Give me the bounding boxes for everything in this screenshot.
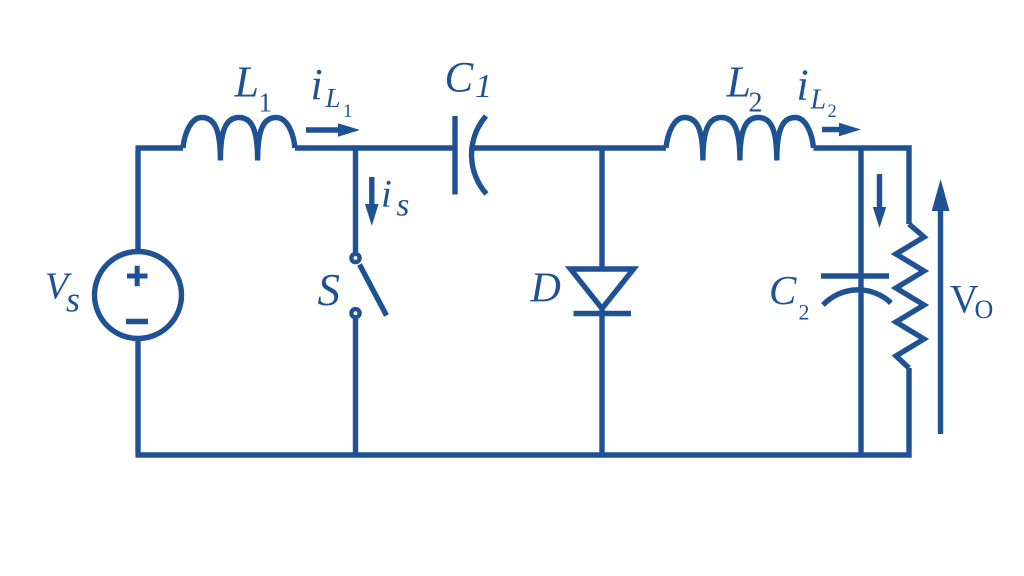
arrow i_s shaft	[369, 177, 374, 208]
svg-text:1: 1	[475, 68, 492, 105]
svg-text:S: S	[318, 265, 341, 315]
svg-text:D: D	[530, 266, 561, 312]
svg-text:2: 2	[749, 88, 763, 119]
arrow i_L1 shaft	[306, 127, 340, 132]
voltage source plus sign	[127, 266, 148, 286]
wire: left rail top (source top to top rail corner to L1)	[136, 148, 184, 252]
wire: C1 to L2	[472, 145, 667, 150]
wire: diode to bottom rail	[599, 309, 604, 456]
svg-text:C: C	[769, 267, 797, 313]
arrowhead load current	[873, 207, 886, 228]
switch S upper contact circle	[351, 254, 359, 262]
arrowhead i_L2	[839, 123, 861, 137]
inductor L1	[183, 118, 295, 161]
arrowhead i_s	[365, 204, 379, 226]
capacitor C1 right curved plate	[472, 116, 487, 194]
svg-text:i: i	[311, 60, 323, 109]
svg-text:1: 1	[259, 88, 273, 118]
wire: switch branch from top rail to upper contact	[353, 148, 358, 252]
arrow V_O shaft (up)	[938, 211, 943, 434]
svg-text:C: C	[445, 55, 475, 102]
switch blade	[360, 265, 387, 316]
arrow i_L2 shaft	[822, 127, 841, 132]
svg-text:s: s	[397, 188, 410, 224]
svg-text:L: L	[325, 83, 341, 113]
diode D cathode bar	[574, 311, 632, 316]
diode D triangle	[571, 269, 634, 309]
wire: resistor bottom to bottom rail and bottom rail to left	[136, 368, 912, 458]
wire: switch lower contact to bottom rail	[353, 319, 358, 455]
resistor R load zigzag	[896, 224, 924, 368]
wire: L1 to C1 left plate	[295, 145, 453, 150]
capacitor C2 top plate	[821, 273, 889, 278]
arrow load current shaft (down)	[877, 174, 882, 209]
capacitor C2 curved bottom plate	[823, 290, 891, 305]
svg-text:L: L	[234, 58, 259, 107]
wire: C2 branch from top rail to bottom rail	[858, 148, 863, 455]
svg-text:2: 2	[799, 300, 810, 325]
svg-text:L: L	[726, 58, 751, 107]
svg-text:i: i	[797, 61, 809, 110]
svg-text:s: s	[66, 280, 80, 320]
voltage source minus sign	[126, 319, 148, 324]
inductor L2	[666, 118, 814, 161]
switch S lower contact circle	[351, 309, 359, 317]
voltage source Vs circle	[95, 252, 182, 339]
wire: L2 to top-right corner down to resistor top	[814, 148, 910, 224]
capacitor C1 left plate	[452, 116, 457, 195]
arrowhead i_L1	[338, 123, 360, 137]
svg-text:1: 1	[343, 101, 353, 122]
arrowhead V_O	[932, 179, 950, 211]
wire: left rail bottom (source bottom to bottom rail)	[135, 339, 140, 456]
svg-text:L: L	[810, 85, 827, 116]
svg-text:O: O	[975, 295, 994, 324]
wire: diode branch from top rail to triangle	[599, 148, 604, 269]
svg-text:2: 2	[828, 102, 837, 122]
svg-text:i: i	[381, 173, 392, 216]
